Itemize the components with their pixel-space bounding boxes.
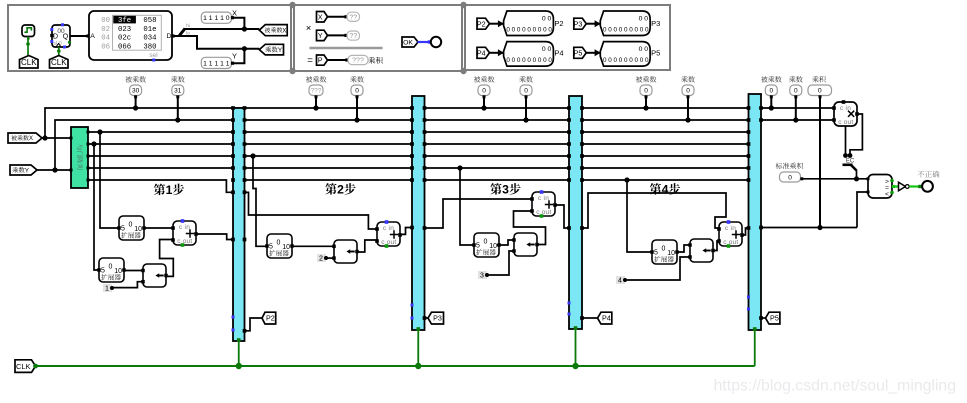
svg-text:5: 5 xyxy=(269,243,273,250)
svg-text:02c: 02c xyxy=(118,35,131,43)
svg-text:Q: Q xyxy=(63,34,69,41)
svg-text:0: 0 xyxy=(277,239,281,246)
svg-text:c in: c in xyxy=(840,105,851,112)
svg-text:D: D xyxy=(53,34,58,41)
svg-text:10: 10 xyxy=(489,243,497,250)
svg-text:c out: c out xyxy=(723,239,738,246)
svg-text:2: 2 xyxy=(319,256,323,263)
svg-text:c out: c out xyxy=(177,238,192,245)
svg-text:P3: P3 xyxy=(433,314,442,323)
svg-text:3fe: 3fe xyxy=(118,17,131,25)
svg-text:023: 023 xyxy=(118,26,131,34)
svg-text:0: 0 xyxy=(794,88,798,95)
svg-text:Y: Y xyxy=(318,33,323,40)
svg-text:c out: c out xyxy=(536,209,551,216)
svg-text:06: 06 xyxy=(101,43,110,51)
svg-text:0 0: 0 0 xyxy=(639,15,649,22)
svg-text:D: D xyxy=(167,33,172,40)
svg-text:034: 034 xyxy=(143,35,157,43)
svg-text:???: ??? xyxy=(352,57,364,64)
svg-text:CLK: CLK xyxy=(21,58,37,67)
svg-text:2: 2 xyxy=(337,183,344,197)
svg-text:Y: Y xyxy=(278,47,283,54)
svg-text:X: X xyxy=(318,14,323,21)
svg-text:×: × xyxy=(306,23,312,34)
svg-text:c out: c out xyxy=(838,119,853,126)
svg-text:00: 00 xyxy=(101,17,110,25)
svg-text:https://blog.csdn.net/soul_min: https://blog.csdn.net/soul_mingling xyxy=(714,378,956,395)
svg-text:0: 0 xyxy=(644,88,648,95)
svg-text:c in: c in xyxy=(179,224,190,231)
svg-text:P5: P5 xyxy=(770,314,779,323)
svg-text:066: 066 xyxy=(118,43,131,51)
svg-text:0 0 0 0 0 0 0 0 0: 0 0 0 0 0 0 0 0 0 xyxy=(506,27,552,34)
svg-text:1 1 1 1 1: 1 1 1 1 1 xyxy=(203,60,230,67)
svg-text:10: 10 xyxy=(134,226,142,233)
svg-text:0 0 0 0 0 0 0 0 0: 0 0 0 0 0 0 0 0 0 xyxy=(603,27,649,34)
svg-text:0: 0 xyxy=(788,174,792,181)
svg-text:30: 30 xyxy=(132,88,140,95)
svg-text:Y: Y xyxy=(232,52,237,61)
svg-text:04: 04 xyxy=(101,35,110,43)
svg-text:P5: P5 xyxy=(651,48,660,57)
svg-text:5: 5 xyxy=(121,225,125,232)
svg-text:=: = xyxy=(307,55,313,66)
svg-text:4: 4 xyxy=(662,183,669,197)
svg-text:A: A xyxy=(90,33,95,40)
svg-text:CLK: CLK xyxy=(16,362,30,371)
svg-text:5: 5 xyxy=(476,242,480,249)
svg-text:OK: OK xyxy=(403,39,413,46)
svg-text:10: 10 xyxy=(282,244,290,251)
svg-text:P: P xyxy=(318,58,323,65)
svg-text:P4: P4 xyxy=(477,48,486,57)
svg-text:5: 5 xyxy=(101,267,105,274)
svg-text:CLK: CLK xyxy=(51,58,67,67)
svg-text:058: 058 xyxy=(143,17,156,25)
svg-text:lo: lo xyxy=(186,31,190,36)
svg-text:0: 0 xyxy=(129,221,133,228)
svg-text:01e: 01e xyxy=(143,26,156,34)
svg-text:X: X xyxy=(282,28,286,34)
svg-text:1: 1 xyxy=(166,183,173,197)
svg-text:c out: c out xyxy=(381,239,396,246)
svg-text:0 0: 0 0 xyxy=(639,46,649,53)
svg-text:0 0: 0 0 xyxy=(542,46,552,53)
svg-text:P2: P2 xyxy=(477,19,486,28)
svg-text:4: 4 xyxy=(618,278,622,285)
svg-text:P3: P3 xyxy=(574,19,583,28)
svg-text:c in: c in xyxy=(725,225,736,232)
svg-text:0 0 0 0 0 0 0 0 0: 0 0 0 0 0 0 0 0 0 xyxy=(506,57,552,64)
svg-text:X: X xyxy=(29,136,33,142)
svg-text:c in: c in xyxy=(538,195,549,202)
svg-text:P5: P5 xyxy=(574,48,583,57)
svg-text:P4: P4 xyxy=(602,314,611,323)
svg-text:02: 02 xyxy=(101,26,110,34)
svg-text:P2: P2 xyxy=(554,19,563,28)
svg-text:3: 3 xyxy=(502,183,509,197)
svg-text:0: 0 xyxy=(686,88,690,95)
svg-text:0: 0 xyxy=(109,263,113,270)
svg-text:??: ?? xyxy=(349,14,357,21)
svg-text:31: 31 xyxy=(174,88,182,95)
svg-text:sel: sel xyxy=(149,52,158,59)
svg-text:0: 0 xyxy=(355,88,359,95)
svg-text:10: 10 xyxy=(114,268,122,275)
svg-text:hi: hi xyxy=(186,23,190,28)
svg-text:0 0: 0 0 xyxy=(542,15,552,22)
svg-text:P2: P2 xyxy=(266,314,275,323)
svg-text:3: 3 xyxy=(480,273,484,280)
svg-text:1 1 1 1 0: 1 1 1 1 0 xyxy=(203,15,230,22)
svg-text:0: 0 xyxy=(662,245,666,252)
svg-text:0: 0 xyxy=(484,238,488,245)
svg-text:0: 0 xyxy=(818,88,822,95)
svg-text:P3: P3 xyxy=(651,19,660,28)
svg-text:1: 1 xyxy=(105,286,109,293)
svg-text:Y: Y xyxy=(25,167,30,174)
svg-text:c in: c in xyxy=(383,225,394,232)
svg-text:<: < xyxy=(885,191,889,198)
svg-text:5: 5 xyxy=(654,249,658,256)
svg-text:0: 0 xyxy=(482,88,486,95)
svg-text:??: ?? xyxy=(349,33,357,40)
svg-text:0 0 0 0 0 0 0 0 0: 0 0 0 0 0 0 0 0 0 xyxy=(603,57,649,64)
svg-text:10: 10 xyxy=(667,250,675,257)
svg-text:0: 0 xyxy=(524,88,528,95)
svg-text:380: 380 xyxy=(143,43,156,51)
svg-text:P4: P4 xyxy=(554,48,563,57)
svg-text:???: ??? xyxy=(311,88,322,95)
svg-text:0: 0 xyxy=(769,88,773,95)
